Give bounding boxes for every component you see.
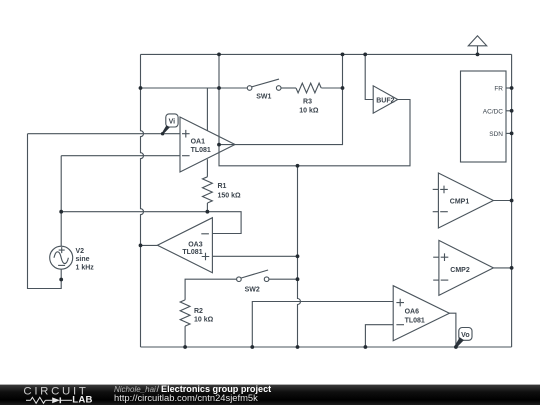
logo wire mid <box>45 399 52 401</box>
junction dot BUF2 out wire / mid vertical <box>296 164 300 168</box>
flag Vi box <box>166 114 178 127</box>
junction dot ground / OA6 - leg <box>364 345 368 349</box>
comparator CMP2 triangle <box>439 240 494 295</box>
junction dot R3 / vertical <box>341 86 345 90</box>
junction dot supply feed / OA1 out vertical <box>217 86 221 90</box>
op-amp OA1 plus mark <box>182 130 190 138</box>
svg-text:10 kΩ: 10 kΩ <box>194 317 214 324</box>
svg-text:SDN: SDN <box>489 131 503 138</box>
wire IC pin stub AC/DC <box>506 110 512 112</box>
wire mid vertical x=297 with hop <box>298 166 301 347</box>
svg-text:sine: sine <box>76 256 90 263</box>
comparator CMP1 plus mark <box>440 186 448 194</box>
svg-text:CMP1: CMP1 <box>450 198 470 205</box>
buffer BUF2 triangle <box>373 86 398 113</box>
wire IC pin stub FR <box>506 87 512 89</box>
voltage source V2 circle <box>50 246 73 269</box>
svg-text:http://circuitlab.com/cntn24sj: http://circuitlab.com/cntn24sjefm5k <box>114 392 258 403</box>
comparator CMP1 minus mark <box>440 211 448 213</box>
logo wire right <box>60 399 72 401</box>
wire OA6 output down to ground rail <box>449 313 456 347</box>
wire bottom rail <box>141 346 512 348</box>
svg-text:1 kHz: 1 kHz <box>76 264 95 271</box>
wire supply feed to SW1 <box>141 87 248 89</box>
junction dot right rail / FR pin <box>510 86 514 90</box>
wire CMP2 - stub <box>433 279 439 281</box>
wire CMP2 output <box>493 267 511 269</box>
flag Vi pointer <box>162 125 170 134</box>
wire SW2 right to mid vertical <box>269 278 298 280</box>
op-amp OA6 minus mark <box>396 324 404 326</box>
svg-text:OA6: OA6 <box>405 309 420 316</box>
junction dot V2+ / OA1 - net <box>59 210 63 214</box>
svg-text:Vo: Vo <box>461 332 469 339</box>
wire SW2 left to R2 <box>185 279 237 300</box>
wire left rail with hops <box>141 54 144 347</box>
junction dot SW2 right / mid vertical <box>296 277 300 281</box>
wire BUF2 input from top rail <box>365 54 373 99</box>
voltage source V2 sine wave <box>54 252 68 264</box>
svg-text:R1: R1 <box>218 183 227 190</box>
wire IC pin stub SDN <box>506 132 512 134</box>
svg-text:150 kΩ: 150 kΩ <box>218 192 242 199</box>
junction dot top rail / OA1 out <box>217 53 221 57</box>
svg-text:Vi: Vi <box>169 118 176 125</box>
wire OA1 V- to R1 <box>206 159 208 177</box>
junction dot right rail / SDN pin <box>510 132 514 136</box>
wire V2 bottom loop to OA1 + input <box>28 134 62 289</box>
junction dot OA3 + / mid vertical <box>296 254 300 258</box>
wire OA6 - input from ground <box>365 325 393 347</box>
op-amp OA1 triangle <box>180 117 235 172</box>
wire top rail <box>141 53 512 55</box>
svg-text:LAB: LAB <box>72 395 92 405</box>
junction dot Vi pointer <box>161 132 164 135</box>
logo wire left <box>26 399 31 401</box>
wire OA3 + input to mid vertical <box>212 255 297 257</box>
wire CMP1 + stub <box>433 188 439 190</box>
logo diode triangle <box>52 397 60 403</box>
resistor R1 zigzag <box>203 177 213 203</box>
switch SW1 left terminal <box>247 86 252 91</box>
svg-text:BUF2: BUF2 <box>376 97 394 104</box>
wire OA1 output down to BUF2 output <box>219 100 410 166</box>
wire net from V2+ along y=211.7 to OA3 inverting input <box>61 212 241 234</box>
wire CMP1 output <box>493 200 511 202</box>
wire R2 bottom lead <box>184 326 186 347</box>
wire R3 right lead <box>321 87 342 89</box>
op-amp OA6 plus mark <box>396 299 404 307</box>
switch SW1 lever <box>252 79 280 87</box>
junction dot top rail / R3 leg <box>341 53 345 57</box>
flag Vo pointer <box>455 337 464 347</box>
op-amp OA3 minus mark <box>201 233 209 235</box>
svg-text:SW1: SW1 <box>256 93 271 100</box>
junction dot OA1 output <box>217 143 221 147</box>
op-amp OA3 triangle (mirrored, output left) <box>157 218 212 273</box>
switch SW2 left terminal <box>237 277 242 282</box>
svg-text:SW2: SW2 <box>245 287 260 294</box>
junction dot top rail / supply antenna <box>476 53 480 57</box>
resistor R3 zigzag <box>296 83 321 93</box>
svg-text:AC/DC: AC/DC <box>483 108 504 115</box>
wire CMP1 - stub <box>433 211 439 213</box>
junction dot right rail / CMP2 out <box>510 266 514 270</box>
svg-text:TL081: TL081 <box>405 317 425 324</box>
junction dot top rail / BUF2 input <box>363 53 367 57</box>
junction dot left rail / supply feed <box>139 86 143 90</box>
junction dot ground / R2 <box>183 345 187 349</box>
comparator CMP2 minus mark <box>441 279 449 281</box>
wire OA1 output to top rail and R3 leg <box>219 54 343 144</box>
svg-text:V2: V2 <box>76 248 85 255</box>
wire OA1 + input from left loop <box>28 133 181 135</box>
junction dot ground / OA6 + leg <box>250 345 254 349</box>
voltage source V2 plus mark <box>59 247 65 253</box>
junction dot OA3 out / left rail <box>139 244 143 248</box>
wire OA1 V+ stub <box>206 88 208 131</box>
junction dot ground / mid vertical <box>296 345 300 349</box>
svg-text:R2: R2 <box>194 308 203 315</box>
junction dot ground / OA6 out <box>454 345 458 349</box>
svg-text:FR: FR <box>494 86 503 93</box>
voltage source V2 minus mark <box>58 264 65 266</box>
switch SW1 right terminal <box>276 86 281 91</box>
wire OA3 output to left rail <box>141 244 158 246</box>
svg-text:OA3: OA3 <box>188 241 203 248</box>
logo diode cathode bar <box>59 397 61 403</box>
switch SW2 lever <box>241 270 268 278</box>
op-amp OA1 minus mark <box>182 155 190 157</box>
junction dot V2 - pin <box>59 278 63 282</box>
svg-text:TL081: TL081 <box>191 147 211 154</box>
IC box U1 (FR / AC/DC / SDN) <box>461 71 507 162</box>
wire R1 bottom lead <box>206 203 208 212</box>
flag Vo box <box>459 328 472 341</box>
svg-text:10 kΩ: 10 kΩ <box>299 108 319 115</box>
op-amp OA6 triangle <box>393 286 449 341</box>
comparator CMP1 triangle <box>438 173 493 228</box>
wire OA1 - input <box>61 155 180 157</box>
power supply antenna symbol stem <box>477 46 479 55</box>
power supply antenna triangle <box>468 36 486 46</box>
resistor R2 zigzag <box>180 300 190 326</box>
logo resistor zigzag <box>31 397 46 403</box>
svg-text:OA1: OA1 <box>191 138 206 145</box>
wire right rail <box>511 54 513 347</box>
comparator CMP2 plus mark <box>441 253 449 261</box>
switch SW2 right terminal <box>264 277 269 282</box>
op-amp OA3 plus mark <box>202 253 210 261</box>
junction dot right rail / AC/DC pin <box>510 109 514 113</box>
junction dot R1 bottom <box>206 210 210 214</box>
svg-text:R3: R3 <box>303 99 312 106</box>
junction dot right rail / CMP1 out <box>510 199 514 203</box>
svg-text:TL081: TL081 <box>182 249 202 256</box>
wire OA6 + input from ground <box>252 302 393 348</box>
wire SW1 to R3 <box>281 87 296 89</box>
wire CMP2 + stub <box>433 256 439 258</box>
svg-text:CMP2: CMP2 <box>450 267 470 274</box>
wire V2 top lead <box>60 156 62 247</box>
